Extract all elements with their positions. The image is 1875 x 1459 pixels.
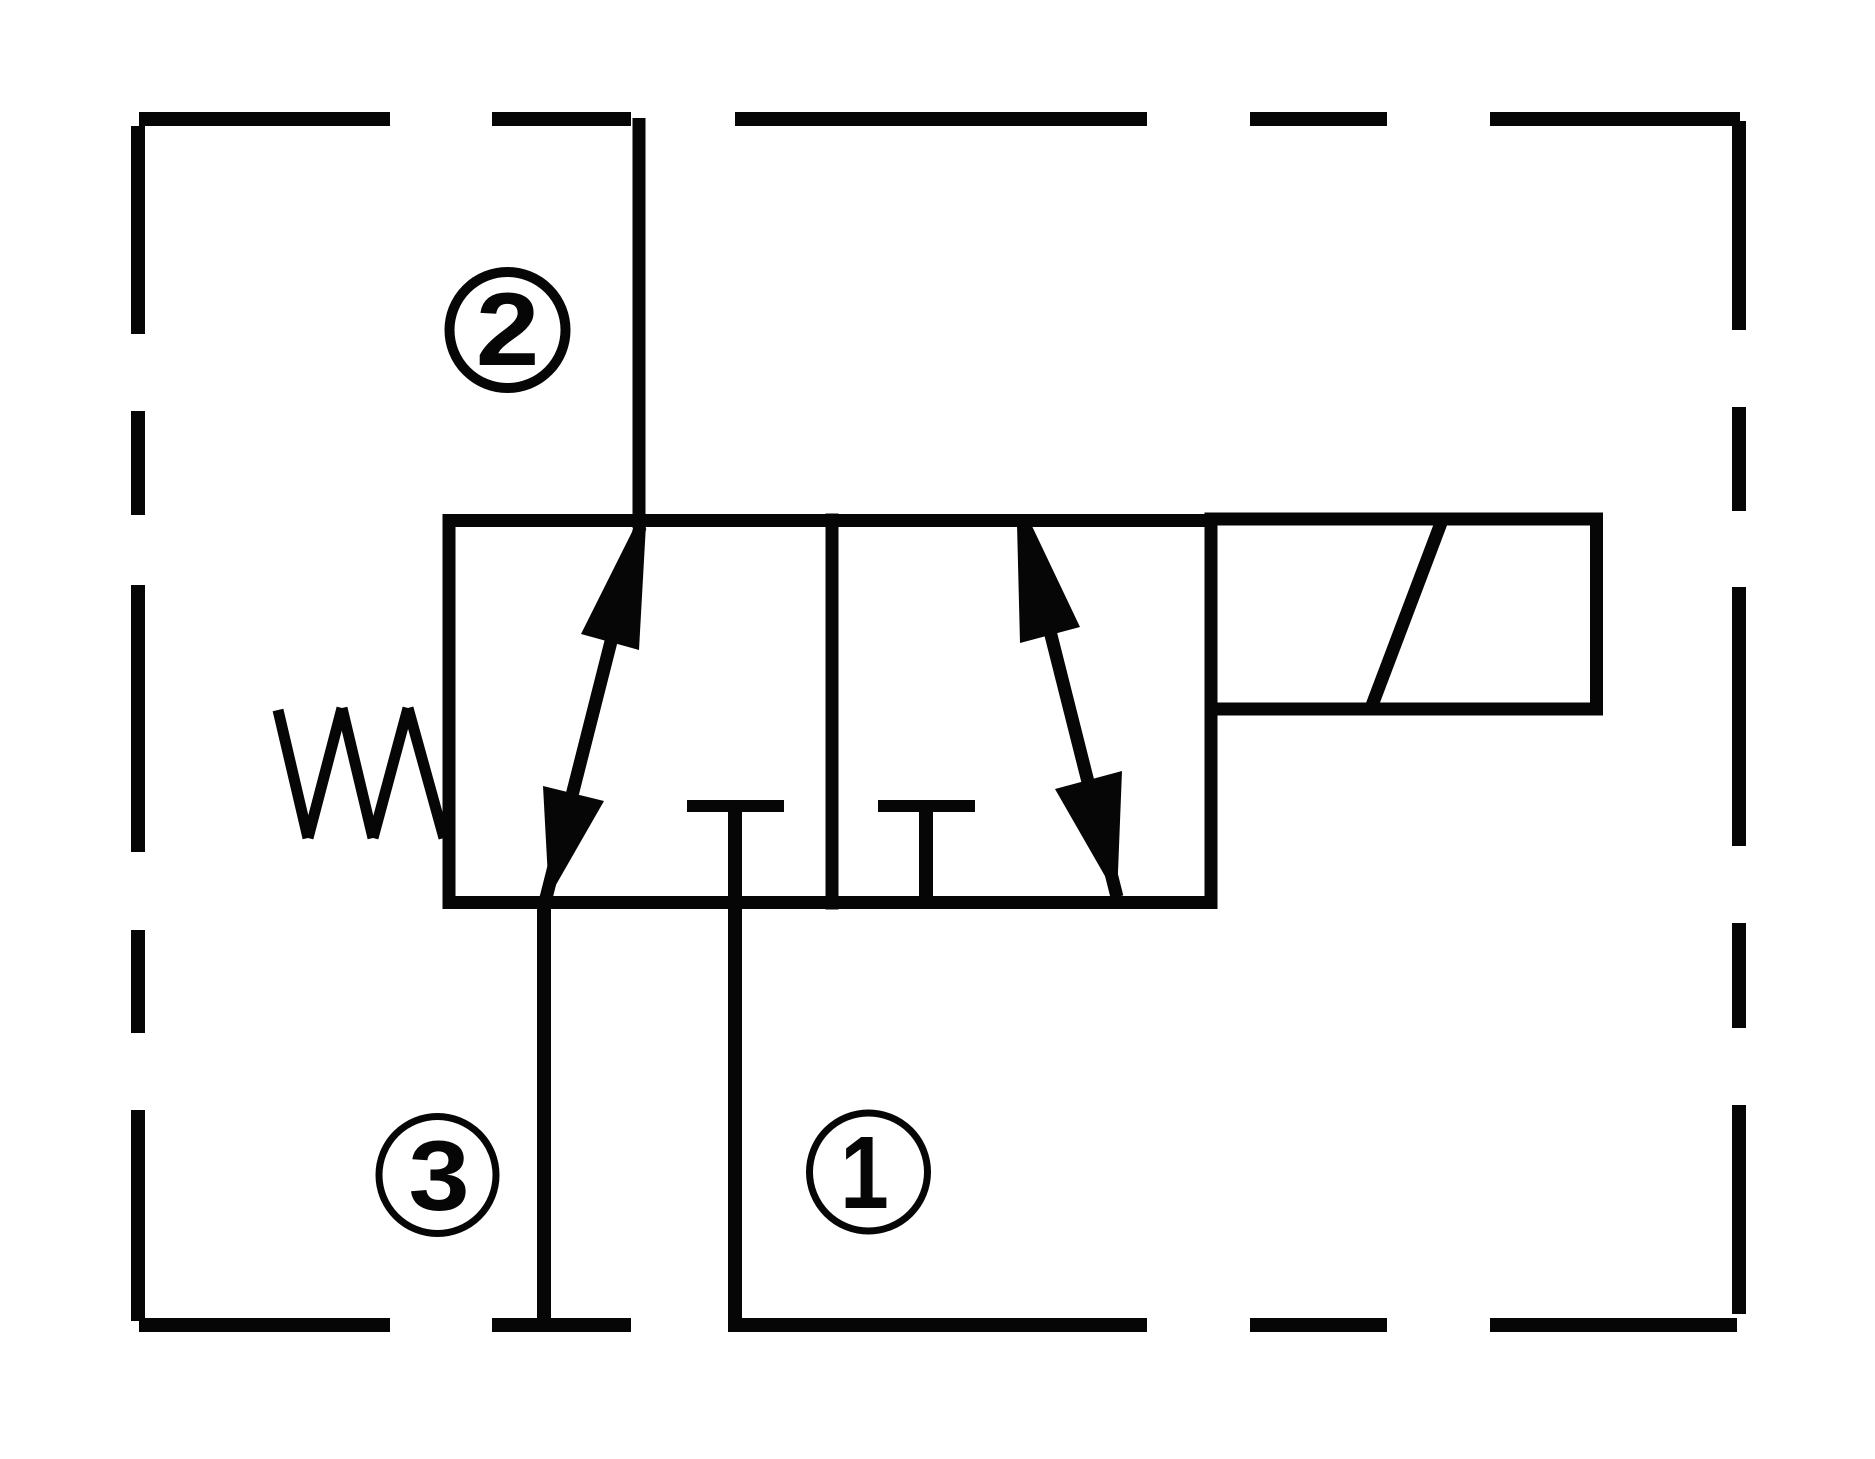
svg-text:2: 2: [476, 272, 540, 388]
port 2 label circle: [450, 272, 566, 388]
flow path arrow position 2 head up: [1017, 524, 1080, 643]
spring return: [278, 708, 444, 838]
flow path arrow position 1 head down: [543, 786, 604, 897]
flow path arrow position 1 shaft: [546, 527, 640, 898]
flow path arrow position 2 shaft: [1023, 524, 1117, 897]
cartridge envelope dashed border right: [1732, 121, 1746, 1314]
blocked port T position 2 bar: [878, 800, 975, 812]
wire port 2 line: [633, 118, 646, 528]
port 3 label circle: [379, 1117, 496, 1234]
solenoid coil diagonal stroke: [1371, 523, 1441, 708]
flow path arrow position 2 head down: [1055, 771, 1122, 897]
valve position divider: [826, 514, 839, 910]
cartridge envelope dashed border bottom: [139, 1318, 1737, 1332]
wire port 1 line: [728, 806, 742, 1326]
cartridge envelope dashed border left: [131, 126, 145, 1321]
wire port 3 line: [537, 896, 551, 1326]
valve body two-position envelope: [449, 521, 1211, 903]
flow path arrow position 1 head up: [581, 524, 646, 650]
blocked port T position 1: [687, 800, 784, 812]
cartridge envelope dashed border top: [139, 112, 1740, 126]
port 1 label circle: [810, 1113, 928, 1231]
solenoid actuator box: [1211, 519, 1597, 709]
svg-text:3: 3: [408, 1121, 469, 1232]
svg-text:1: 1: [840, 1115, 889, 1230]
blocked port T position 2 stem: [919, 806, 933, 902]
